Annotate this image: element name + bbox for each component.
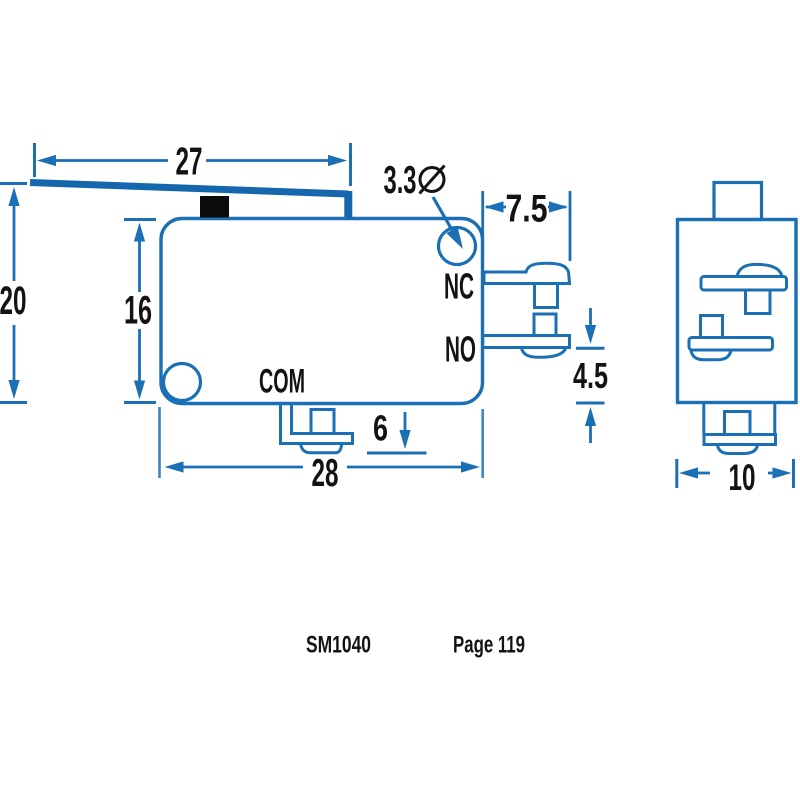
svg-text:SM1040: SM1040: [306, 632, 371, 659]
switch body (side view): [678, 220, 797, 403]
svg-text:10: 10: [729, 457, 756, 498]
svg-text:16: 16: [124, 289, 152, 333]
dimension 16 (body height): [124, 220, 156, 403]
actuator block (black): [200, 196, 229, 218]
dimension 28 (body width): [160, 407, 483, 478]
dimension 10 (side width): [677, 459, 794, 488]
svg-text:3.3: 3.3: [384, 159, 417, 202]
lever arm: [30, 183, 348, 218]
COM terminal (side view): [704, 403, 776, 454]
dimension 27 (lever length): [35, 143, 351, 186]
dimension 6 (terminal depth): [367, 412, 427, 453]
dimension 4.5 (terminal offset): [576, 308, 605, 443]
switch body (front view): [161, 219, 483, 404]
svg-text:4.5: 4.5: [573, 355, 608, 396]
NO terminal (front view): [483, 314, 570, 357]
dimension 7.5 (terminal length): [483, 191, 570, 261]
pivot hole bottom-left (front view): [164, 364, 201, 401]
svg-text:27: 27: [176, 140, 203, 183]
svg-text:NC: NC: [444, 266, 474, 307]
svg-text:COM: COM: [259, 363, 305, 401]
svg-text:20: 20: [0, 279, 26, 323]
dimension 20 (overall height): [0, 184, 27, 403]
svg-text:NO: NO: [445, 329, 476, 370]
leader arrow to hole: [433, 197, 463, 249]
svg-text:7.5: 7.5: [506, 188, 548, 231]
plunger button (side view): [714, 183, 762, 220]
mounting hole 3.3mm (front view): [439, 228, 476, 265]
diameter symbol: [420, 166, 445, 194]
svg-text:Page 119: Page 119: [453, 632, 525, 659]
NC terminal (side view): [701, 264, 787, 313]
svg-text:6: 6: [373, 408, 388, 449]
NO terminal (side view): [689, 316, 773, 360]
svg-text:28: 28: [312, 452, 339, 495]
COM terminal (front view): [281, 404, 353, 453]
NC terminal (front view): [484, 263, 570, 307]
